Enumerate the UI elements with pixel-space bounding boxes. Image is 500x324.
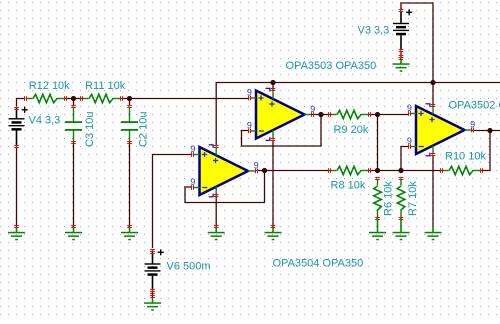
wire U3 V- pin to ground xyxy=(432,156,434,227)
wire U2 output to R9 xyxy=(313,114,330,116)
wire V3 battery loop to rail xyxy=(401,3,433,83)
junction V3 on rail xyxy=(430,80,435,85)
svg-text:9: 9 xyxy=(310,104,315,114)
svg-text:OPA3502 OPA350: OPA3502 OPA350 xyxy=(449,100,500,112)
svg-text:9: 9 xyxy=(254,161,259,171)
battery V3 3,3 xyxy=(393,9,412,52)
label C2 10u xyxy=(138,112,150,147)
op-amp U2 OPA3503 xyxy=(247,88,315,141)
label C3 10u xyxy=(84,112,96,147)
svg-text:9: 9 xyxy=(470,120,475,130)
svg-text:9: 9 xyxy=(407,103,412,113)
junction U1 output node xyxy=(262,168,267,173)
wire U1 +input to V6 xyxy=(153,155,193,249)
wire U3 feedback -input xyxy=(401,147,409,171)
terminal V3 ground ticks xyxy=(399,55,404,58)
svg-text:9: 9 xyxy=(190,177,195,187)
battery V6 500m xyxy=(145,249,164,292)
label R12 10k xyxy=(29,80,70,92)
svg-text:R11 10k: R11 10k xyxy=(85,80,126,92)
label OPA3504 OPA350 xyxy=(273,258,364,270)
wire U2 V+ pin to rail xyxy=(272,83,274,91)
wire C2 bottom to ground xyxy=(129,143,131,227)
label V4 3,3 xyxy=(29,115,61,127)
label V6 500m xyxy=(167,261,211,273)
wire battery V4 top to R12 xyxy=(17,99,26,107)
svg-text:9: 9 xyxy=(190,144,195,154)
junction U3 output node xyxy=(487,128,492,133)
svg-text:V4 3,3: V4 3,3 xyxy=(29,115,61,127)
label R10 10k xyxy=(445,151,486,163)
svg-text:R12 10k: R12 10k xyxy=(29,80,70,92)
junction U2 supply on rail xyxy=(270,80,275,85)
ground below U3 xyxy=(425,0,442,240)
wire V6 bottom to ground xyxy=(152,292,154,298)
svg-text:R6 10k: R6 10k xyxy=(383,181,395,216)
wire V3 bottom to ground xyxy=(400,51,402,58)
wire U1 feedback -input loop xyxy=(185,171,265,203)
svg-text:V3 3,3: V3 3,3 xyxy=(358,25,390,37)
svg-text:9: 9 xyxy=(247,121,252,131)
wire R11 to node N2 to op-amp U2 +input xyxy=(122,98,249,100)
label V3 3,3 xyxy=(358,25,390,37)
svg-text:R10 10k: R10 10k xyxy=(445,151,486,163)
capacitor C3 10u xyxy=(65,105,82,144)
svg-text:R8 10k: R8 10k xyxy=(331,180,366,192)
capacitor C2 10u xyxy=(121,105,138,144)
label R7 10k xyxy=(407,181,419,216)
svg-text:9: 9 xyxy=(407,136,412,146)
wire R10 to U3 output node xyxy=(482,131,491,171)
resistor R11 10k xyxy=(80,94,123,102)
wire U3 V+ pin to rail xyxy=(432,83,434,107)
label OPA3502 OPA350 xyxy=(449,100,500,112)
svg-text:C3 10u: C3 10u xyxy=(84,112,96,147)
resistor R9 20k xyxy=(328,110,371,118)
resistor R7 10k xyxy=(397,177,405,220)
ground below V6 xyxy=(144,295,161,311)
wire U3 output to right edge xyxy=(472,130,500,132)
resistor R6 10k xyxy=(374,177,382,220)
label R8 10k xyxy=(331,180,366,192)
wire battery V4 bottom to ground xyxy=(16,148,18,227)
label R11 10k xyxy=(85,80,126,92)
op-amp U3 OPA3502 xyxy=(407,103,475,156)
junction node N2 xyxy=(127,96,132,101)
junction node N1 xyxy=(71,96,76,101)
wire U2 V- pin to ground xyxy=(272,140,274,227)
resistor R8 10k xyxy=(328,166,371,174)
terminal V6 bottom extra ticks xyxy=(150,291,155,294)
ground below C3 xyxy=(65,225,82,240)
svg-text:OPA3503 OPA350: OPA3503 OPA350 xyxy=(286,60,377,72)
ground below U2 xyxy=(265,225,282,240)
wire U1 V- pin to ground xyxy=(215,196,217,227)
resistor R12 10k xyxy=(24,94,67,102)
op-amp U1 OPA3504 xyxy=(190,144,258,197)
wire R8 to R10 row xyxy=(370,170,442,172)
svg-text:R9 20k: R9 20k xyxy=(334,124,369,136)
wire V+ supply rail xyxy=(216,83,500,147)
wire U2 feedback -input loop xyxy=(242,115,322,147)
svg-text:C2 10u: C2 10u xyxy=(138,112,150,147)
label OPA3503 OPA350 xyxy=(286,60,377,72)
wire U1 output to R8 xyxy=(257,170,330,172)
ground below U1 xyxy=(208,225,225,240)
ground below V4 xyxy=(8,225,25,240)
wire node N2 to C2 xyxy=(129,99,131,107)
junction U2 output node xyxy=(318,112,323,117)
svg-text:OPA3504 OPA350: OPA3504 OPA350 xyxy=(273,258,364,270)
wire R9 to node N3 to U3 +input xyxy=(370,114,409,116)
label R6 10k xyxy=(383,181,395,216)
wire node N3 to node N4 xyxy=(377,115,379,171)
wire C3 bottom to ground xyxy=(73,143,75,227)
ground below V3 xyxy=(393,57,410,72)
svg-text:9: 9 xyxy=(247,88,252,98)
label R9 20k xyxy=(334,124,369,136)
junction node N5 xyxy=(398,168,403,173)
ground below R7 xyxy=(393,219,410,241)
svg-text:R7 10k: R7 10k xyxy=(407,181,419,216)
resistor R10 10k xyxy=(440,166,483,174)
junction node N4 xyxy=(375,168,380,173)
ground below R6 xyxy=(369,219,386,241)
terminal V6 top extra ticks xyxy=(150,251,155,254)
wire node N1 to C3 xyxy=(73,99,75,107)
ground below C2 xyxy=(121,225,138,240)
wire R12 to node N1 xyxy=(66,98,82,100)
battery V4 3,3 xyxy=(9,107,28,148)
junction node N3 xyxy=(375,112,380,117)
svg-text:V6 500m: V6 500m xyxy=(167,261,211,273)
